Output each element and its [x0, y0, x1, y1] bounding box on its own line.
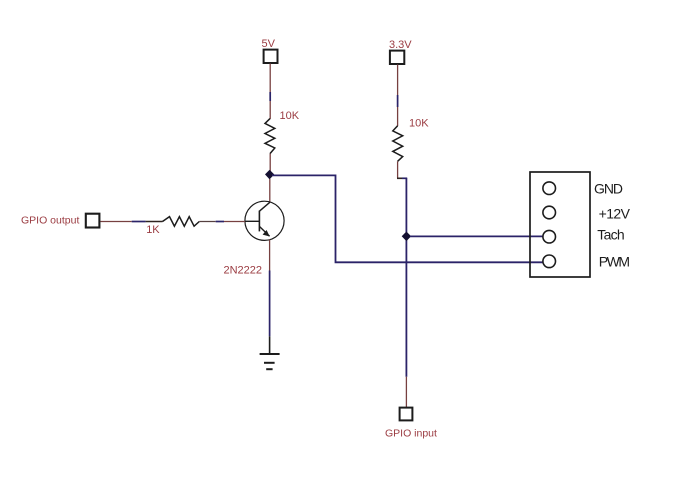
svg-text:10K: 10K — [280, 110, 300, 122]
svg-text:3.3V: 3.3V — [389, 39, 412, 51]
ground — [260, 354, 280, 369]
net Tach wire — [410, 235, 543, 237]
node collector junction — [265, 170, 274, 180]
wire to GPIO input terminal — [405, 377, 407, 407]
pin 3 Tach — [543, 230, 556, 243]
svg-text:GPIO output: GPIO output — [21, 214, 79, 226]
wire right resistor to jog — [397, 161, 399, 177]
svg-text:+12V: +12V — [599, 206, 631, 222]
wire collector node to transistor — [269, 179, 271, 203]
node Tach junction — [402, 232, 411, 242]
terminal GPIO output box — [86, 214, 100, 228]
power symbol 3.3V box — [390, 51, 404, 64]
net 3.3V pull-up vertical — [405, 178, 407, 376]
wire 5V to left resistor — [269, 64, 271, 120]
resistor R 10K right — [393, 126, 403, 162]
svg-text:5V: 5V — [262, 38, 276, 50]
wire GPIO output to 1K resistor — [101, 221, 163, 223]
pin 2 +12V — [543, 206, 556, 219]
wire emitter to ground — [269, 239, 271, 353]
net collector to PWM pin — [272, 175, 543, 262]
pin 4 PWM — [543, 255, 556, 268]
svg-text:PWM: PWM — [599, 253, 630, 269]
svg-text:GPIO input: GPIO input — [385, 428, 437, 440]
terminal GPIO input box — [400, 408, 413, 421]
resistor R 1K — [163, 217, 200, 227]
svg-text:GND: GND — [594, 181, 623, 197]
power symbol 5V box — [264, 50, 278, 63]
wire 1K resistor to base — [199, 221, 245, 223]
transistor Q1 2N2222 — [245, 201, 284, 240]
svg-text:10K: 10K — [409, 118, 429, 130]
wire 3.3V to right resistor — [397, 65, 399, 127]
wire left resistor to collector node — [269, 154, 271, 172]
connector J1 body — [530, 172, 590, 277]
wire jog — [397, 177, 407, 179]
resistor R 10K left — [265, 119, 275, 154]
svg-text:2N2222: 2N2222 — [224, 265, 263, 277]
pin 1 GND — [543, 182, 556, 195]
svg-text:1K: 1K — [146, 224, 160, 236]
svg-text:Tach: Tach — [597, 227, 624, 243]
